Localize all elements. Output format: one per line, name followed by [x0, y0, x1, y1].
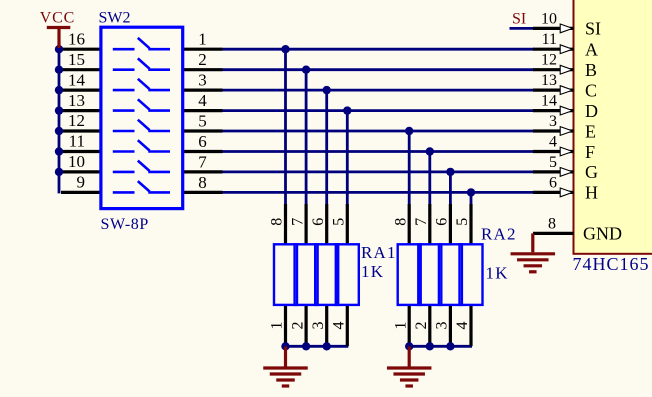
svg-text:11: 11	[69, 132, 85, 151]
svg-text:C: C	[585, 80, 597, 100]
svg-text:8: 8	[269, 218, 286, 226]
svg-text:13: 13	[68, 91, 85, 110]
svg-text:3: 3	[310, 322, 327, 330]
svg-text:1: 1	[198, 30, 207, 49]
svg-text:6: 6	[549, 174, 557, 191]
svg-text:5: 5	[454, 218, 471, 226]
svg-text:SW2: SW2	[99, 9, 131, 26]
svg-text:D: D	[585, 101, 598, 121]
svg-text:SW-8P: SW-8P	[101, 216, 149, 233]
svg-text:2: 2	[413, 322, 430, 330]
svg-text:7: 7	[289, 218, 306, 226]
svg-text:4: 4	[454, 322, 471, 330]
svg-text:E: E	[585, 121, 596, 141]
svg-text:14: 14	[541, 93, 557, 110]
svg-text:1: 1	[392, 322, 409, 330]
svg-text:2: 2	[289, 322, 306, 330]
svg-text:8: 8	[392, 218, 409, 226]
svg-text:10: 10	[541, 11, 557, 28]
svg-text:GND: GND	[583, 224, 622, 244]
svg-text:13: 13	[541, 72, 557, 89]
svg-text:7: 7	[413, 218, 430, 226]
svg-text:16: 16	[68, 29, 85, 48]
svg-text:1: 1	[269, 322, 286, 330]
svg-text:1K: 1K	[361, 262, 384, 281]
svg-text:G: G	[585, 162, 598, 182]
svg-text:14: 14	[68, 70, 86, 89]
svg-text:6: 6	[434, 218, 451, 226]
svg-text:12: 12	[541, 52, 557, 69]
svg-text:7: 7	[198, 152, 207, 171]
svg-text:VCC: VCC	[40, 9, 75, 26]
svg-text:SI: SI	[585, 19, 601, 39]
svg-text:4: 4	[198, 91, 207, 110]
svg-text:10: 10	[68, 152, 85, 171]
svg-text:4: 4	[549, 134, 557, 151]
svg-text:A: A	[585, 40, 598, 60]
svg-text:H: H	[585, 183, 598, 203]
svg-text:6: 6	[198, 132, 207, 151]
svg-text:8: 8	[198, 173, 207, 192]
svg-text:12: 12	[68, 111, 85, 130]
svg-text:SI: SI	[512, 11, 526, 28]
svg-text:3: 3	[198, 71, 207, 90]
svg-text:4: 4	[331, 322, 348, 330]
svg-text:2: 2	[198, 50, 207, 69]
svg-text:6: 6	[310, 218, 327, 226]
svg-text:RA1: RA1	[361, 243, 397, 262]
svg-text:3: 3	[434, 322, 451, 330]
svg-text:5: 5	[198, 111, 207, 130]
svg-text:1K: 1K	[486, 264, 509, 283]
svg-text:3: 3	[549, 113, 557, 130]
svg-text:RA2: RA2	[481, 224, 517, 243]
svg-text:74HC165: 74HC165	[573, 254, 650, 274]
svg-text:F: F	[585, 142, 595, 162]
svg-text:11: 11	[542, 31, 557, 48]
svg-text:15: 15	[68, 50, 85, 69]
svg-text:B: B	[585, 60, 597, 80]
svg-text:8: 8	[548, 215, 556, 232]
svg-text:5: 5	[549, 154, 557, 171]
svg-text:5: 5	[331, 218, 348, 226]
svg-text:9: 9	[77, 173, 86, 192]
